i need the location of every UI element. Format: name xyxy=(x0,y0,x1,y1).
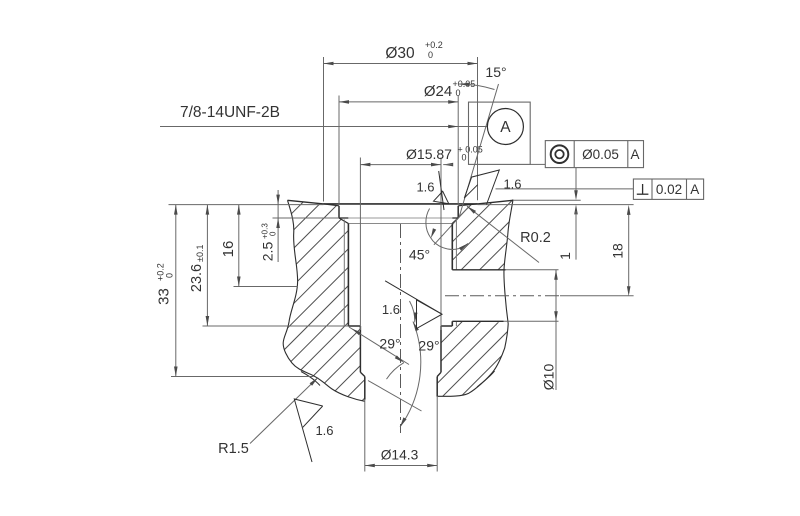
ext d24 left xyxy=(338,96,340,206)
roughness symbol S4 (d14.3 bore) xyxy=(294,399,322,462)
dim 18 xyxy=(628,210,630,293)
svg-text:1.6: 1.6 xyxy=(315,423,333,438)
svg-text:33: 33 xyxy=(156,288,173,305)
svg-text:0.02: 0.02 xyxy=(656,182,682,197)
ext d15.87 right xyxy=(440,158,442,331)
roughness symbol S3 (pilot bore) xyxy=(385,281,442,329)
svg-text:A: A xyxy=(500,119,511,136)
svg-text:15°: 15° xyxy=(485,64,506,80)
perpendicularity feature control frame xyxy=(633,179,703,199)
29deg small arc upper xyxy=(410,301,415,323)
dim 2.5 xyxy=(277,190,279,262)
svg-text:1.6: 1.6 xyxy=(416,180,434,195)
ext d24 right xyxy=(457,96,459,206)
svg-text:18: 18 xyxy=(610,243,626,259)
upper face ext right (1 dim) xyxy=(513,199,581,201)
svg-text:45°: 45° xyxy=(409,247,430,263)
svg-text:23.6: 23.6 xyxy=(189,264,205,292)
hole bottom ext xyxy=(504,320,559,322)
dim 16 xyxy=(238,205,240,287)
vertical centerline xyxy=(400,224,402,433)
counterbore floor xyxy=(339,217,348,219)
left break line xyxy=(283,200,365,401)
dim d24 xyxy=(339,101,458,103)
svg-text:R1.5: R1.5 xyxy=(218,441,249,457)
svg-text:29°: 29° xyxy=(379,336,400,352)
svg-text:±0.1: ±0.1 xyxy=(195,245,205,262)
side hole d10 edges xyxy=(452,269,505,271)
16 depth ext xyxy=(234,286,299,288)
right break line xyxy=(438,200,513,397)
hatching right-top section xyxy=(440,195,520,285)
thread chamfer bottom edge xyxy=(348,223,452,225)
dim d14.3 xyxy=(365,465,437,467)
concentricity feature control frame xyxy=(545,141,643,168)
pilot bore d15.87 walls xyxy=(359,326,361,372)
svg-text:Ø30: Ø30 xyxy=(385,45,415,62)
face extension left xyxy=(169,204,324,206)
svg-text:+0.2: +0.2 xyxy=(425,40,443,50)
svg-text:Ø15.87: Ø15.87 xyxy=(406,146,452,162)
45deg chamfer wing line xyxy=(434,206,469,244)
sealing cone edges (15deg) xyxy=(324,204,340,206)
dim 1 (spotface depth) xyxy=(574,204,578,214)
R1.5 leader xyxy=(250,378,318,444)
roughness symbol S1 (top face) xyxy=(434,171,449,210)
connector to frame xyxy=(530,163,545,165)
counterbore d24 walls xyxy=(338,206,340,218)
ext d30 left xyxy=(323,57,325,202)
ext d15.87 left xyxy=(359,158,361,331)
left crescent stroke xyxy=(301,372,320,386)
thread major lines (thin) xyxy=(343,220,345,327)
svg-text:0: 0 xyxy=(269,231,278,236)
svg-text:Ø10: Ø10 xyxy=(541,364,557,391)
45deg thread chamfers xyxy=(339,218,348,224)
svg-text:R0.2: R0.2 xyxy=(520,230,551,246)
datum A box and circle xyxy=(469,102,531,164)
svg-text:0: 0 xyxy=(428,50,433,60)
33 depth ext xyxy=(171,376,313,378)
svg-text:Ø0.05: Ø0.05 xyxy=(582,147,619,162)
svg-text:0: 0 xyxy=(462,153,467,163)
dim d10 xyxy=(555,270,557,390)
29deg wing line D1 xyxy=(349,327,409,365)
thread relief step xyxy=(348,325,360,327)
ext d14.3 left xyxy=(364,400,366,472)
dim d30 xyxy=(324,63,478,65)
roughness symbol S2 (sealing cone) xyxy=(464,170,499,205)
ext d14.3 right xyxy=(436,397,438,472)
dim 23.6 xyxy=(206,205,208,326)
svg-text:1.6: 1.6 xyxy=(503,177,521,192)
15 deg cone line xyxy=(459,84,499,218)
svg-text:2.5: 2.5 xyxy=(260,242,276,262)
29deg arc A1 xyxy=(387,363,405,380)
svg-text:0: 0 xyxy=(456,88,461,98)
dim d15.87 xyxy=(360,164,441,166)
perp frame leader xyxy=(496,188,634,190)
45deg chamfer arc xyxy=(426,209,468,250)
thread minor lines (thick) xyxy=(347,224,349,327)
seat cone 29deg xyxy=(360,372,364,376)
side hole centerline xyxy=(445,295,560,297)
cbore floor ext (2.5 dim) xyxy=(273,217,340,219)
23.6 depth ext xyxy=(203,325,349,327)
svg-text:Ø24: Ø24 xyxy=(424,83,452,100)
hatching left section xyxy=(270,195,375,410)
right crescent stroke xyxy=(477,371,495,387)
svg-text:1.6: 1.6 xyxy=(382,302,400,317)
svg-text:Ø14.3: Ø14.3 xyxy=(381,448,419,463)
concentricity leader xyxy=(575,168,577,197)
centerline extension for 18 dim xyxy=(560,295,634,297)
svg-text:A: A xyxy=(690,182,699,197)
hole top ext xyxy=(506,269,559,271)
hatching right-bottom section xyxy=(430,315,520,400)
svg-text:29°: 29° xyxy=(418,338,439,354)
29deg wing line D2 xyxy=(368,381,422,412)
svg-text:A: A xyxy=(630,147,639,162)
svg-text:16: 16 xyxy=(220,241,237,258)
R0.2 leader xyxy=(467,206,539,262)
part top face xyxy=(288,200,324,204)
face extension right xyxy=(478,204,634,206)
bore d14.3 walls xyxy=(364,377,366,400)
svg-text:1: 1 xyxy=(557,252,573,260)
dim 33 xyxy=(175,205,177,377)
29deg big arc right xyxy=(400,322,421,428)
svg-text:7/8-14UNF-2B: 7/8-14UNF-2B xyxy=(180,104,280,121)
svg-text:0: 0 xyxy=(165,273,175,278)
ext d30 right xyxy=(477,57,479,200)
